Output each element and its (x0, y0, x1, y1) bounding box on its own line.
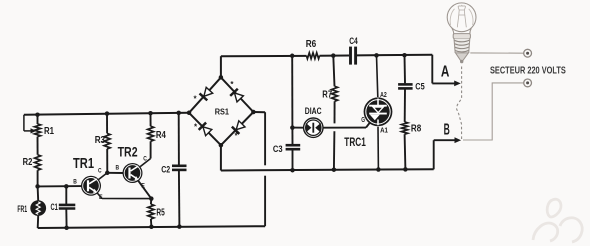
svg-text:B: B (116, 164, 120, 171)
svg-text:E: E (99, 194, 103, 201)
svg-text:FR1: FR1 (17, 204, 27, 214)
svg-text:C2: C2 (161, 164, 170, 175)
svg-text:R2: R2 (23, 157, 33, 168)
svg-text:*: * (230, 80, 234, 89)
svg-text:C1: C1 (51, 202, 59, 213)
svg-text:B: B (444, 122, 450, 139)
svg-text:A: A (441, 63, 450, 80)
svg-text:TR1: TR1 (73, 156, 94, 172)
svg-text:R5: R5 (156, 208, 165, 219)
svg-text:R1: R1 (44, 126, 54, 137)
svg-text:TR2: TR2 (118, 144, 138, 159)
svg-text:R3: R3 (95, 135, 106, 146)
svg-text:E: E (141, 183, 145, 190)
svg-text:SECTEUR 220 VOLTS: SECTEUR 220 VOLTS (490, 65, 566, 76)
svg-text:A1: A1 (380, 126, 388, 135)
svg-text:RS1: RS1 (215, 107, 229, 117)
svg-text:C: C (143, 155, 147, 162)
svg-text:*: * (194, 122, 198, 131)
svg-text:C5: C5 (415, 81, 425, 92)
svg-text:R6: R6 (306, 39, 317, 50)
svg-text:TRC1: TRC1 (344, 137, 366, 149)
svg-text:C3: C3 (273, 144, 283, 155)
svg-text:R8: R8 (411, 124, 422, 135)
svg-text:R7: R7 (322, 89, 332, 100)
svg-text:G: G (361, 117, 365, 124)
svg-text:B: B (73, 178, 77, 185)
svg-text:C: C (98, 168, 102, 175)
svg-text:*: * (193, 95, 197, 104)
svg-text:R4: R4 (156, 130, 166, 141)
svg-text:A2: A2 (380, 90, 387, 99)
svg-text:DIAC: DIAC (305, 106, 322, 116)
svg-text:C4: C4 (349, 36, 358, 47)
